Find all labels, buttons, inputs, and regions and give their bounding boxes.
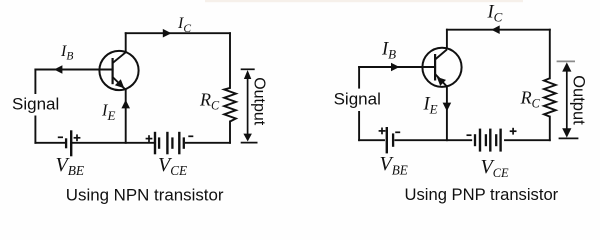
faint cropped highlight line at top [205, 0, 523, 2]
battery VCE left: minus sign [188, 135, 193, 137]
wire: bottom wire left segment right circuit [359, 139, 384, 141]
battery VBE right: plus sign [379, 128, 386, 135]
battery VCE left: plus sign [146, 135, 153, 142]
battery VCE right: cell 2 short plate [485, 134, 487, 146]
label Signal right (white text box over wire) [331, 89, 381, 111]
svg-text:Signal: Signal [12, 94, 59, 113]
transistor Q1 collector diagonal [113, 52, 126, 63]
arrow IB left (pointing left) [54, 65, 62, 74]
output dimension arrow left: up arrowhead [244, 70, 251, 79]
battery VCE right: cell 2 long plate [489, 129, 491, 152]
svg-text:Signal: Signal [334, 90, 381, 109]
battery VBE right: long positive plate [386, 127, 388, 153]
wire: bottom wire left segment left circuit [35, 142, 65, 144]
battery VCE left: cell 2 short plate [171, 137, 173, 148]
output dimension arrow right: vertical line [566, 66, 568, 133]
arrow IC right (pointing left) [491, 25, 499, 34]
battery VBE left: plus sign [74, 134, 81, 141]
wire: bottom wire right segment left circuit [186, 142, 230, 144]
battery VBE right: short negative plate [392, 133, 394, 146]
output dimension arrow left: bottom cap [241, 142, 258, 144]
battery VCE left: cell 2 long plate [166, 132, 168, 155]
wire: collector riser left [125, 33, 127, 52]
wire: left wire right circuit [358, 67, 360, 140]
wire: right wire lower segment right circuit [549, 117, 551, 141]
wire: top wire left [126, 32, 230, 34]
arrow IE left (pointing up) [121, 100, 130, 109]
transistor Q1 circle [99, 51, 138, 90]
output dimension arrow right: top cap (gray) [557, 60, 575, 62]
wire: base wire left circuit [35, 69, 112, 71]
battery VBE right: minus sign [395, 131, 400, 133]
output dimension arrow left: top cap [241, 68, 255, 70]
battery VCE right: cell 3 long plate [499, 129, 501, 152]
battery VCE left: cell 1 long plate [154, 132, 156, 155]
battery VCE right: plus sign [510, 128, 517, 135]
wire: base wire right circuit [359, 66, 435, 68]
wire: collector riser right [446, 30, 448, 49]
battery VCE right: cell 3 short plate [495, 134, 497, 146]
wire: right wire lower segment left [229, 122, 231, 143]
arrow IE right (pointing down) [443, 103, 452, 112]
transistor Q1 base bar [111, 58, 113, 84]
wire: bottom wire right segment right circuit [505, 139, 550, 141]
output dimension arrow right: down arrowhead [562, 128, 571, 137]
transistor Q1 (NPN) [99, 51, 138, 90]
wire: emitter wire left circuit [125, 90, 127, 143]
transistor Q2 emitter arrowhead (PNP inward) [437, 77, 446, 86]
resistor RC right zigzag [544, 78, 556, 116]
transistor Q2 circle [422, 48, 461, 87]
wire: right wire upper segment left [229, 33, 231, 88]
wire: bottom wire middle segment left circuit [72, 142, 153, 144]
wire: bottom wire middle segment right circuit [395, 139, 471, 141]
arrow IC left (pointing right) [163, 29, 172, 38]
output dimension arrow right: up arrowhead [562, 62, 571, 71]
battery VCE right: cell 1 short plate [474, 134, 476, 146]
wire: top wire right [447, 29, 550, 31]
battery VCE left: cell 1 short plate [158, 137, 160, 148]
arrow IB right (pointing right) [391, 63, 399, 72]
svg-text:Using NPN transistor: Using NPN transistor [66, 185, 224, 204]
resistor RC left zigzag [224, 88, 236, 122]
battery VCE right: cell 1 long plate [479, 129, 481, 152]
transistor Q1 emitter arrowhead (NPN outward) [115, 79, 124, 88]
svg-text:Output: Output [251, 77, 268, 126]
transistor Q2 (PNP) [422, 48, 461, 87]
transistor Q1 emitter diagonal [113, 77, 126, 90]
wire: left wire left circuit [34, 70, 36, 143]
wire: right wire upper segment right circuit [549, 30, 551, 79]
label Signal left (white text box over wire) [9, 94, 61, 116]
output dimension arrow right: bottom cap [559, 137, 579, 139]
battery VBE left: long positive plate [70, 130, 72, 156]
battery VBE left: minus sign [58, 136, 63, 138]
transistor Q2 collector diagonal [435, 50, 447, 60]
transistor Q2 emitter diagonal [435, 74, 447, 87]
battery VCE left: cell 3 short plate [183, 137, 185, 148]
svg-text:Using PNP transistor: Using PNP transistor [405, 185, 559, 204]
svg-text:Output: Output [569, 75, 587, 125]
transistor Q2 base bar [434, 54, 436, 81]
wire: emitter wire right circuit [446, 87, 448, 141]
battery VCE right: minus sign [467, 134, 472, 136]
output dimension arrow left: down arrowhead [243, 134, 252, 142]
output dimension arrow left: vertical line [247, 74, 249, 137]
battery VBE left: short negative plate [65, 138, 67, 148]
battery VCE left: cell 3 long plate [178, 132, 180, 155]
